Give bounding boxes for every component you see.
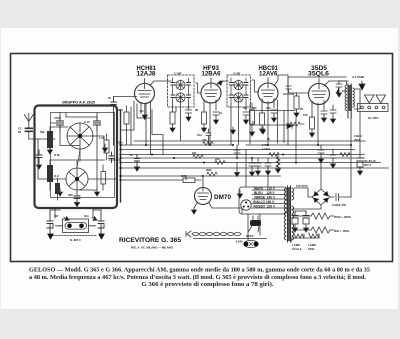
svg-text:ING. A. VC. MILANO — MILANO: ING. A. VC. MILANO — MILANO xyxy=(131,245,174,249)
resistor R6 volume xyxy=(243,106,255,136)
capacitor C23 mid xyxy=(197,129,211,145)
twisted pair xyxy=(186,231,241,237)
label HCH81 12AJ8 xyxy=(137,66,157,78)
U2 pin wires xyxy=(204,100,216,145)
resistor R11 on bus xyxy=(192,151,203,159)
svg-text:4.240: 4.240 xyxy=(236,240,243,244)
wire U3 plate to U4 grid xyxy=(274,75,288,86)
phono cap right xyxy=(84,210,105,240)
bus wires xyxy=(121,141,389,176)
svg-text:200Ω + 300Ω: 200Ω + 300Ω xyxy=(334,215,352,219)
resistor R18 zigzag power feed xyxy=(269,153,279,157)
svg-text:GRUPPO A.F. 2625: GRUPPO A.F. 2625 xyxy=(62,100,96,105)
selector to ballast wires xyxy=(248,214,260,240)
detector value labels xyxy=(252,106,304,141)
svg-text:10n: 10n xyxy=(84,214,89,218)
U2 grid wire xyxy=(196,83,201,93)
resistor R3 below T1 xyxy=(170,112,175,132)
phono wiper arrow right xyxy=(92,217,97,221)
dial lamp LP1 xyxy=(294,233,304,238)
svg-text:1n: 1n xyxy=(130,153,134,157)
capacitor C11 below U4 xyxy=(321,111,327,122)
resistor R9 on bus xyxy=(202,138,213,146)
speaker terminal box xyxy=(358,104,389,112)
tuner right column ground xyxy=(103,144,108,152)
dial cord dashed xyxy=(77,149,80,168)
svg-text:0,25µF 450: 0,25µF 450 xyxy=(332,203,347,207)
B+ top rail xyxy=(288,77,346,145)
svg-text:GIALLO 160 V: GIALLO 160 V xyxy=(253,200,275,204)
tube U1 HCH81 xyxy=(135,79,155,104)
wire U1 plate to T1 xyxy=(150,81,171,86)
junction dots xyxy=(119,144,352,181)
svg-text:1,5kΩ: 1,5kΩ xyxy=(262,147,270,151)
resistor R5 below U3 xyxy=(260,113,265,133)
svg-text:a 48 m. Media frequenza a 467: a 48 m. Media frequenza a 467 kc/s. Pote… xyxy=(29,274,367,281)
phono cap left xyxy=(47,210,59,240)
resistor R17 zigzag right xyxy=(340,153,351,157)
T1 pin wires xyxy=(173,101,189,141)
ground in tuner mid xyxy=(58,188,63,196)
misc verticals from bus to components xyxy=(131,107,321,214)
phono pickup box xyxy=(53,219,98,242)
svg-text:50k: 50k xyxy=(40,130,45,134)
capacitor C14 mid with ground xyxy=(249,158,255,176)
heater wire xyxy=(291,234,319,242)
svg-text:68k: 68k xyxy=(252,106,257,110)
tuner right column capacitor xyxy=(109,152,114,163)
label 2 BLU 2500 xyxy=(354,134,362,142)
capacitor C10 coupling xyxy=(283,86,297,96)
svg-text:465: 465 xyxy=(68,193,73,197)
phono wiper arrow left xyxy=(64,217,69,221)
tube V5 DM70 xyxy=(194,176,212,208)
power transformer T4 xyxy=(284,186,294,242)
capacitor C24 plate bypass xyxy=(330,105,336,123)
svg-text:30Ω + 160Ω: 30Ω + 160Ω xyxy=(334,229,350,233)
bus junction line xyxy=(120,110,122,202)
capacitor C13 mid xyxy=(234,145,240,157)
voltage selector plug xyxy=(241,200,251,210)
wire speaker return xyxy=(359,112,361,159)
svg-text:2-15: 2-15 xyxy=(84,120,90,124)
mains plug xyxy=(246,216,261,238)
capacitor C6 below T1 xyxy=(186,108,192,121)
svg-text:RICEVITORE G. 365: RICEVITORE G. 365 xyxy=(119,237,181,244)
oscillator coil L2 xyxy=(47,160,53,190)
svg-text:NERO 110 V: NERO 110 V xyxy=(254,186,276,190)
output transformer T3 xyxy=(338,81,360,145)
svg-text:SCALA: SCALA xyxy=(292,247,302,251)
detector mesh wires xyxy=(250,100,295,144)
capacitor C18 mid-right with ground xyxy=(330,150,336,169)
U4 pin wires xyxy=(312,101,324,146)
ground stub A xyxy=(231,127,236,134)
wire to U4 grid xyxy=(297,92,309,94)
wire U4 plate to T3 xyxy=(324,81,348,86)
resistor R14 power xyxy=(293,213,352,219)
wires power mid xyxy=(295,210,306,212)
svg-text:12AJ8: 12AJ8 xyxy=(137,72,157,78)
tuning gang section 2 xyxy=(66,168,88,190)
svg-text:68: 68 xyxy=(195,108,199,112)
T2 pin wires xyxy=(231,101,252,145)
svg-text:25: 25 xyxy=(300,107,304,111)
U1 cathode loop xyxy=(137,104,151,118)
transformer taps xyxy=(251,190,287,208)
capacitor C4 in tuner xyxy=(36,150,42,163)
label RICEVITORE G. 365 xyxy=(119,237,181,250)
svg-text:DM70: DM70 xyxy=(214,195,232,201)
svg-text:O.M.: O.M. xyxy=(54,153,60,157)
U1 cathode ground xyxy=(142,104,147,120)
speaker LS2 xyxy=(376,95,386,103)
IF transformer T1 xyxy=(168,72,195,108)
capacitor C9 below U3 xyxy=(271,110,277,122)
ballast capsule xyxy=(236,240,259,248)
capacitor C17 mid-right with ground xyxy=(318,145,324,163)
capacitor C12 tone xyxy=(336,81,347,97)
svg-text:1n: 1n xyxy=(252,120,256,124)
electrolytic C16 xyxy=(303,211,309,232)
svg-text:1,50: 1,50 xyxy=(99,136,105,140)
capacitor C5 near U1 xyxy=(108,96,116,145)
svg-text:350 V: 350 V xyxy=(364,163,371,167)
B+ arrow at transformer xyxy=(359,81,365,90)
svg-text:VERDE 140 V: VERDE 140 V xyxy=(254,195,276,199)
svg-text:2º MF: 2º MF xyxy=(233,72,241,76)
voltage tap labels xyxy=(253,186,276,208)
electrolytic C15 xyxy=(292,211,298,232)
IF transformer T2 xyxy=(227,72,251,108)
svg-text:5n: 5n xyxy=(108,96,112,100)
ground DM70 xyxy=(192,208,197,214)
svg-text:3k3: 3k3 xyxy=(118,108,123,112)
svg-text:47k: 47k xyxy=(266,106,271,110)
padder capacitor C3 xyxy=(94,116,101,131)
tuner small labels xyxy=(40,120,105,197)
svg-text:G 366 è provvisto di complesso: G 366 è provvisto di complesso fono a 78… xyxy=(142,281,275,288)
label HF93 12BA6 xyxy=(202,66,222,78)
resistor R1 in tuner xyxy=(104,134,109,160)
phono wires up xyxy=(50,208,101,218)
ground in tuner right xyxy=(95,188,100,196)
capacitor C8 below T2 xyxy=(243,112,249,124)
tuner inner shield rect xyxy=(51,113,115,198)
wire U2 plate to T2 xyxy=(216,81,228,85)
label 35D5 35QL6 xyxy=(308,66,330,78)
svg-text:47k: 47k xyxy=(202,138,207,142)
svg-text:12AV6: 12AV6 xyxy=(259,72,278,78)
svg-text:BLEU 125 V: BLEU 125 V xyxy=(254,191,275,195)
label HBC91 12AV6 xyxy=(259,66,279,78)
caption text xyxy=(29,268,370,289)
capacitor C25 left bus xyxy=(130,153,140,171)
resistor R16 vertical zigzag xyxy=(276,155,281,174)
wire B+ from bridge xyxy=(350,145,352,197)
svg-text:EL 1557: EL 1557 xyxy=(368,116,379,120)
svg-text:150: 150 xyxy=(303,113,308,117)
svg-text:ROSSO 220 V: ROSSO 220 V xyxy=(254,204,276,208)
capacitor C20 with ground xyxy=(255,158,261,175)
resistor R13 DM70 grid xyxy=(121,174,202,183)
tube U3 HBC91 xyxy=(258,78,278,103)
resistor R20 zigzag small xyxy=(287,122,304,126)
resistor R8 below U4 xyxy=(303,113,315,137)
resistor R15 power xyxy=(293,227,350,233)
U3 pin wires xyxy=(262,99,274,145)
capacitor C21 with ground xyxy=(265,158,271,175)
resistor R2 below U1 xyxy=(118,106,129,145)
antenna xyxy=(24,114,47,140)
svg-text:RETE: RETE xyxy=(246,234,254,238)
ground in tuner left xyxy=(37,162,42,169)
resistor R7 grid leak xyxy=(288,92,299,117)
svg-text:35k: 35k xyxy=(118,141,123,145)
speaker LS1 xyxy=(365,95,375,103)
svg-text:1M: 1M xyxy=(192,151,197,155)
svg-text:A.T./1598: A.T./1598 xyxy=(352,75,364,79)
svg-text:SPIA: SPIA xyxy=(308,247,315,251)
border frame xyxy=(11,54,393,262)
tuning gang section 1 xyxy=(67,123,93,149)
svg-text:1º MF: 1º MF xyxy=(174,72,182,76)
tuner capacitor C22 xyxy=(74,196,80,207)
tuner wires xyxy=(38,113,121,197)
resistor R4 below U2 xyxy=(195,108,207,132)
U3 grid wire xyxy=(252,80,259,92)
svg-text:2M2: 2M2 xyxy=(206,168,212,172)
resistor R10 on bus xyxy=(215,157,225,165)
lamp labels xyxy=(292,243,317,251)
diode D1 xyxy=(287,124,292,129)
trimmer capacitor C2 xyxy=(54,116,64,131)
filter capacitor C19 xyxy=(357,158,376,175)
svg-text:50: 50 xyxy=(267,137,271,141)
antenna coil L1 xyxy=(47,127,53,154)
dial lamp LP2 xyxy=(309,233,319,238)
svg-text:GELOSO — Modd. G 365 e G 366.: GELOSO — Modd. G 365 e G 366. Apparecchi… xyxy=(29,268,370,274)
tuner box GRUPPO A.F. xyxy=(35,106,118,209)
svg-text:O.C.: O.C. xyxy=(54,174,60,178)
svg-text:12BA6: 12BA6 xyxy=(202,72,222,78)
ground stub B xyxy=(261,127,266,134)
svg-text:5%: 5% xyxy=(140,109,145,113)
svg-text:115-1575: 115-1575 xyxy=(296,184,308,188)
U1 pin wires xyxy=(114,97,151,155)
resistor R12 avc xyxy=(206,168,217,176)
tuner right column resistor R21 xyxy=(101,165,106,190)
mains run wire xyxy=(194,238,267,240)
svg-text:10n: 10n xyxy=(197,133,202,137)
capacitor C7 below U2 xyxy=(213,111,223,124)
tube U2 HF93 xyxy=(201,78,221,103)
svg-text:22k: 22k xyxy=(215,157,220,161)
svg-text:1M: 1M xyxy=(243,106,248,110)
svg-text:N. 822 C: N. 822 C xyxy=(70,238,81,242)
svg-text:50: 50 xyxy=(18,130,22,134)
voltage selector box xyxy=(239,187,287,214)
svg-text:5n: 5n xyxy=(219,111,223,115)
tuner resistor R19 xyxy=(55,178,60,200)
bridge rectifier xyxy=(292,180,351,209)
svg-text:470k: 470k xyxy=(288,92,295,96)
label 1W 1.5k xyxy=(262,143,270,151)
tube U4 35D5 xyxy=(309,79,330,105)
